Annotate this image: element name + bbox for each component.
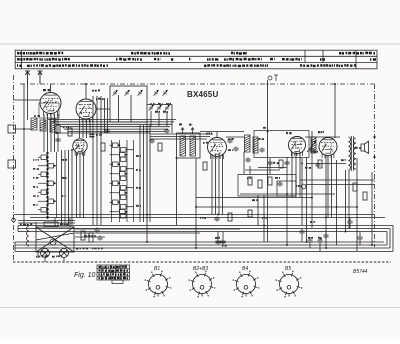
capacitor C19 (215, 240, 220, 245)
mains drop wires (35, 222, 37, 227)
bus line 1 (14, 214, 375, 216)
svg-text:B1: B1 (154, 266, 160, 272)
component value label (228, 138, 264, 140)
resistor R18 (353, 183, 357, 191)
trimmer C4 (149, 105, 154, 111)
component value label (247, 177, 280, 179)
trimmer C5 (157, 105, 162, 111)
capacitor C25 (214, 217, 219, 222)
component value label (92, 89, 100, 91)
IFT1 top wire (171, 105, 173, 134)
tube base diagram B2 B3 (189, 271, 216, 298)
wire IFT1 to B3 (200, 131, 244, 133)
IF T1 labels (179, 123, 193, 125)
waveband switch row labels (33, 159, 39, 161)
terminal box 1 (8, 125, 16, 133)
title block row 3 text (17, 64, 356, 67)
loudspeaker (361, 141, 369, 154)
component value label (136, 205, 141, 207)
wire det 3 (311, 131, 313, 228)
trimmer drop wires (150, 111, 152, 126)
waveband switch row labels b (33, 168, 39, 170)
wire feedback down a (257, 195, 259, 226)
wire B3 pins down (211, 154, 213, 215)
capacitor C30 (277, 182, 282, 187)
trimmer C6 (165, 105, 170, 111)
wire y194 (240, 193, 335, 195)
capacitor C28 (299, 230, 304, 235)
IF T1 adjustment arrows (181, 128, 194, 134)
grid lead bus 2 (150, 133, 213, 135)
output transformer core (352, 136, 354, 171)
component value label (62, 159, 67, 161)
tube B5 label (318, 131, 324, 134)
wire B5 pins down (327, 155, 329, 218)
output transformer primary (349, 137, 351, 170)
oscillator coil L3 (50, 119, 56, 132)
wire tube B2 pins down (79, 120, 81, 138)
wire volume control (243, 152, 245, 174)
svg-text:B4: B4 (242, 266, 248, 272)
wire group mid b (104, 98, 106, 133)
capacitor C22 (317, 239, 322, 244)
wire IFT1 down 2 (195, 158, 197, 248)
bus line 3 (18, 225, 393, 227)
aerial terminal A1 (25, 71, 30, 84)
wire B5 cathode (336, 160, 338, 245)
title block table frame (15, 50, 377, 69)
wire det 2 (306, 158, 308, 242)
component value label (252, 199, 258, 201)
mains wiring (75, 228, 110, 230)
capacitor C23 (347, 220, 352, 225)
wire HT vertical from gang (146, 122, 148, 242)
grid lead bus (48, 119, 176, 121)
resistor R10 (56, 125, 60, 133)
component value label (203, 142, 208, 144)
capacitor C26 (245, 158, 250, 163)
coil box (39, 103, 59, 118)
capacitor C30 (164, 129, 169, 134)
coil pack stub wires (126, 149, 134, 151)
component value label (63, 126, 69, 128)
resistor R15 (228, 213, 232, 221)
tube B3 IF amplifier (208, 138, 227, 157)
wire tube B1 pins down (43, 114, 45, 152)
capacitor C18 (315, 163, 320, 168)
trimmer C2 (125, 90, 130, 96)
component value label (136, 187, 141, 189)
wire B3 plate (216, 132, 218, 139)
component value label (96, 134, 102, 136)
capacitor C29 (323, 234, 328, 239)
volume control arrow (307, 141, 316, 152)
bus line 5 (18, 231, 387, 233)
mains resistor R31 (89, 233, 93, 242)
wire feedback top a (249, 166, 251, 174)
wire top to B5 (334, 84, 336, 138)
capacitor C15 (259, 148, 264, 153)
wire feedback top link (258, 167, 287, 169)
capacitor C20 (220, 240, 225, 245)
IF transformer T1 primary (180, 136, 186, 156)
bus line 2 (30, 217, 385, 219)
capacitor C32 (94, 228, 99, 233)
component value label (62, 177, 67, 179)
component value label (96, 98, 104, 101)
wire B2 to gang (96, 108, 110, 110)
capacitor stub wires (217, 232, 219, 240)
wire B1 left (14, 99, 41, 101)
resistor R13 (158, 143, 162, 151)
terminal A label (268, 75, 278, 81)
resistor R14 (203, 162, 207, 170)
tube base diagram B1 (145, 271, 172, 298)
speaker terminal bottom (373, 156, 375, 158)
mains choke coil (27, 226, 29, 246)
wire B2 top (85, 84, 87, 99)
component value label (310, 221, 316, 223)
bus line 4 (18, 228, 390, 230)
wire B4 plate (305, 136, 340, 138)
output transformer secondary (353, 138, 356, 169)
earth terminal (12, 218, 16, 222)
title block row 1 text (17, 52, 375, 55)
trimmer C7 (154, 90, 159, 96)
wire y207 (196, 206, 357, 208)
wire y133 (55, 132, 150, 134)
mains switch (44, 222, 58, 227)
wire B1 top cap (50, 84, 52, 93)
aerial coil L1 (31, 118, 37, 130)
component value label (34, 115, 40, 117)
component value label (215, 237, 322, 240)
component value label (296, 185, 302, 187)
wire B5 grid down (325, 155, 327, 248)
wire y163 (306, 163, 346, 165)
pilot lamp 2 (60, 249, 69, 258)
wire OT down 2 (348, 170, 350, 229)
feedback network box (238, 175, 296, 197)
wire left vertical b (27, 84, 29, 120)
tube B2 triode (73, 139, 87, 153)
IF transformer T2 secondary (253, 137, 258, 153)
bus line 6 (15, 241, 384, 243)
wire feedback down b (263, 195, 265, 242)
component value label (136, 155, 141, 157)
tube base diagram B4 (233, 271, 260, 298)
resistor R22 (268, 177, 272, 185)
bus right wrap (392, 226, 394, 252)
tube B2 oscillator section (76, 99, 96, 119)
component value label (136, 169, 141, 171)
mains feed wires (18, 220, 75, 222)
chassis frame bottom (13, 261, 391, 263)
component value label (84, 235, 96, 237)
dial lamp wires (37, 252, 39, 258)
wire B3 to IFT2 (226, 136, 244, 138)
drive pulley (50, 239, 56, 245)
waveband switch bank S1 (38, 152, 57, 218)
wire feedback top link 2 (245, 169, 280, 171)
parts table entries (99, 269, 129, 272)
svg-text:B5744: B5744 (353, 269, 368, 275)
resistor R11 (68, 128, 72, 136)
capacitor C10 (89, 133, 94, 138)
bus line 7 (15, 244, 387, 246)
wire feedback top b (269, 158, 271, 174)
resistor R23 (248, 210, 252, 217)
parts table entries (99, 277, 129, 279)
parts code table (97, 265, 130, 284)
bus left wrap (14, 242, 16, 252)
wire y197 (196, 197, 312, 199)
title block row 2 text (17, 58, 376, 61)
mains cluster marks (76, 247, 103, 249)
trimmer C1 (113, 90, 118, 96)
wire OT down 1 (345, 170, 347, 231)
wire B4 cathode down (286, 157, 288, 245)
resistor R16 (279, 160, 283, 168)
component value label (200, 217, 268, 220)
aerial coil L2 (40, 120, 46, 131)
pilot lamp 1 (41, 249, 50, 258)
wire det 1 (301, 158, 303, 225)
wire group mid (92, 96, 94, 225)
parts table entries (99, 273, 129, 276)
coil pack bank S2 (110, 140, 134, 222)
component value label (228, 149, 233, 151)
trimmer C3 (138, 90, 143, 96)
tube B4 detector (289, 137, 306, 154)
tube B5 output (319, 138, 337, 156)
pickup jack (301, 184, 306, 189)
svg-text:Fig. 10: Fig. 10 (74, 272, 96, 279)
capacitor C21 (307, 239, 312, 244)
component value label (222, 245, 227, 247)
chassis frame top (20, 83, 375, 85)
component value label (273, 162, 279, 164)
wire group gang (139, 125, 141, 222)
component value label (305, 167, 311, 169)
wire B1 left 2 (14, 128, 32, 130)
IF transformer T1 box (177, 133, 201, 158)
wire speaker return (356, 158, 358, 251)
parts table entries (99, 266, 128, 269)
component value label (355, 147, 361, 149)
junction dots (146, 131, 148, 133)
resistor R20 (248, 177, 252, 185)
wire B4 pins down (291, 152, 293, 198)
terminal box 2 (8, 160, 16, 168)
component value label (313, 151, 318, 153)
component value label (155, 111, 168, 114)
wire group left (61, 150, 63, 225)
capacitor C31 (55, 138, 60, 143)
component value label (150, 103, 171, 105)
capacitor C27 (284, 161, 289, 166)
dial drive plate (36, 227, 74, 252)
wire y180 (300, 179, 375, 181)
wire right feed (371, 172, 373, 245)
mains cluster marks b (36, 255, 62, 258)
tube B4 label (286, 132, 292, 134)
aerial terminal A2 (38, 71, 43, 84)
tube base diagram B5 (276, 271, 303, 298)
trimmer C8 (163, 90, 168, 96)
wire jack right (306, 184, 375, 186)
capacitor C11 (104, 129, 109, 134)
IF transformer T1 secondary (190, 136, 196, 156)
capacitor C14 (233, 147, 238, 152)
tube B1 frequency changer (40, 93, 61, 114)
mains resistor R30 (81, 231, 85, 240)
waveband switch S1 wafer (47, 152, 49, 218)
component value label (62, 195, 67, 198)
component value label (263, 127, 268, 129)
wire from terminal A (267, 80, 269, 242)
tube B1 label (43, 89, 50, 91)
detector stage box (254, 131, 309, 158)
component value label (341, 159, 347, 161)
speaker terminal top (373, 136, 375, 138)
mains labels (20, 223, 70, 226)
capacitor C13 (227, 139, 232, 144)
wire IFT1 down (176, 158, 178, 225)
chassis frame left (13, 75, 15, 261)
chassis frame right (374, 84, 376, 247)
capacitor C24 (357, 236, 362, 241)
resistor R19 (363, 192, 367, 200)
wire left vertical a (23, 84, 25, 226)
mains capacitor C40 (97, 236, 102, 241)
resistor R17 (318, 160, 322, 168)
trimmer row wire (147, 104, 172, 106)
coil pack bank S2 second column (121, 148, 127, 153)
tube B3 label (206, 132, 212, 134)
bus line 9 (15, 251, 393, 253)
component value label (311, 141, 316, 143)
resistor R12 (101, 143, 105, 151)
svg-text:B5: B5 (285, 266, 291, 272)
svg-text:BX465U: BX465U (187, 90, 218, 99)
bus line 8 (15, 247, 390, 249)
capacitor C17 (309, 148, 314, 153)
capacitor C12 (149, 139, 154, 144)
capacitor C16 (267, 161, 272, 166)
resistor R21 (258, 180, 262, 188)
wire B2b down (76, 153, 78, 218)
feedback inner box (277, 181, 296, 196)
IF transformer T2 primary (245, 135, 251, 152)
tuning gang box (110, 86, 147, 122)
volume control coil (311, 137, 316, 153)
